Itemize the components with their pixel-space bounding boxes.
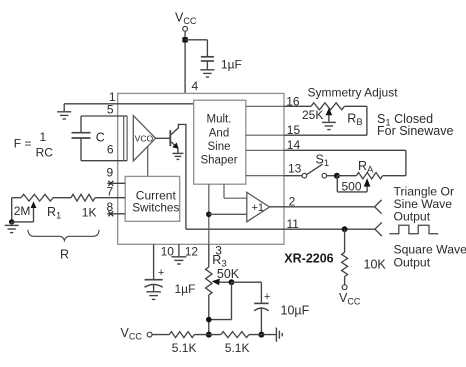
svg-text:Shaper: Shaper	[200, 154, 237, 166]
svg-text:R: R	[60, 247, 69, 261]
svg-text:Sine: Sine	[207, 141, 230, 153]
svg-text:50K: 50K	[217, 267, 240, 281]
svg-text:10K: 10K	[364, 257, 387, 271]
svg-text:1K: 1K	[82, 205, 97, 219]
svg-text:1µF: 1µF	[221, 58, 242, 72]
svg-text:16: 16	[286, 95, 300, 109]
svg-text:15: 15	[287, 123, 301, 137]
svg-text:12: 12	[185, 244, 199, 258]
svg-text:And: And	[209, 127, 229, 139]
svg-text:VCO: VCO	[135, 133, 154, 143]
svg-text:+: +	[264, 291, 270, 303]
svg-text:C: C	[96, 131, 105, 145]
svg-text:Symmetry Adjust: Symmetry Adjust	[308, 86, 399, 100]
svg-text:14: 14	[287, 138, 301, 152]
svg-text:10µF: 10µF	[281, 304, 310, 318]
svg-text:1µF: 1µF	[175, 282, 196, 296]
svg-text:Output: Output	[394, 255, 431, 269]
svg-text:4: 4	[192, 79, 199, 93]
svg-text:13: 13	[288, 161, 302, 175]
svg-text:RC: RC	[36, 146, 54, 160]
svg-text:+: +	[158, 267, 164, 279]
svg-text:Mult.: Mult.	[207, 114, 232, 126]
svg-text:XR-2206: XR-2206	[284, 251, 333, 265]
svg-text:5.1K: 5.1K	[225, 341, 250, 355]
svg-text:2M: 2M	[14, 204, 31, 218]
svg-text:6: 6	[107, 142, 114, 156]
svg-text:+1: +1	[252, 202, 265, 214]
svg-text:9: 9	[107, 166, 114, 180]
svg-text:2: 2	[289, 194, 296, 208]
svg-text:25K: 25K	[302, 108, 323, 122]
svg-text:Output: Output	[394, 210, 431, 224]
svg-text:7: 7	[107, 185, 114, 199]
svg-text:F =: F =	[14, 137, 32, 151]
svg-text:500: 500	[342, 179, 362, 193]
svg-text:Switches: Switches	[132, 201, 179, 215]
svg-text:5: 5	[107, 103, 114, 117]
svg-text:8: 8	[107, 200, 114, 214]
svg-text:For Sinewave: For Sinewave	[377, 124, 453, 138]
svg-text:5.1K: 5.1K	[172, 341, 197, 355]
svg-text:11: 11	[287, 217, 300, 231]
svg-text:1: 1	[40, 130, 47, 144]
